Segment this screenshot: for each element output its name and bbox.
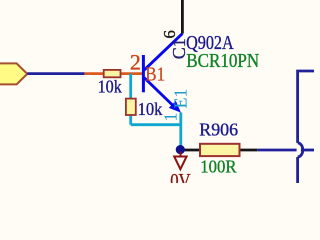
svg-text:10k: 10k: [138, 99, 163, 119]
wire orange to base: [85, 72, 143, 75]
wire navy bottom right after hop: [301, 149, 314, 152]
wire navy from port: [27, 72, 84, 75]
transistor collector diagonal: [144, 34, 182, 71]
transistor Q902A base bar: [142, 55, 145, 92]
resistor R? 10k body (horizontal): [104, 70, 121, 77]
svg-text:B1: B1: [145, 63, 165, 85]
svg-text:E1: E1: [171, 89, 191, 109]
svg-text:2: 2: [130, 49, 141, 74]
ground 0V triangle: [174, 157, 186, 170]
wire black collector up: [181, 0, 184, 34]
svg-text:6: 6: [160, 30, 179, 39]
svg-text:100R: 100R: [200, 157, 236, 177]
wire navy right vertical lower: [296, 157, 299, 183]
svg-text:BCR10PN: BCR10PN: [186, 50, 259, 72]
resistor R906 body: [200, 144, 240, 156]
ground stub: [180, 152, 182, 157]
wire cyan vertical from base net: [129, 74, 132, 125]
svg-text:1: 1: [161, 113, 181, 122]
svg-text:0V: 0V: [170, 170, 191, 183]
svg-text:10k: 10k: [98, 76, 122, 96]
wire navy right vertical upper: [298, 71, 314, 143]
svg-text:R906: R906: [199, 120, 238, 140]
junction dot: [176, 145, 185, 154]
wire navy bottom right: [257, 149, 296, 152]
wire cyan horizontal: [131, 123, 181, 126]
sheet background: [0, 0, 314, 183]
wire black bottom from junction to resistor: [180, 149, 257, 152]
transistor emitter arrow: [169, 101, 181, 113]
port P? (off-sheet connector): [0, 63, 27, 84]
wire hop arc: [298, 143, 303, 157]
transistor emitter diagonal: [144, 78, 175, 108]
resistor R? 10k body (vertical): [126, 99, 136, 115]
wire cyan vertical to emitter and junction: [179, 113, 182, 150]
